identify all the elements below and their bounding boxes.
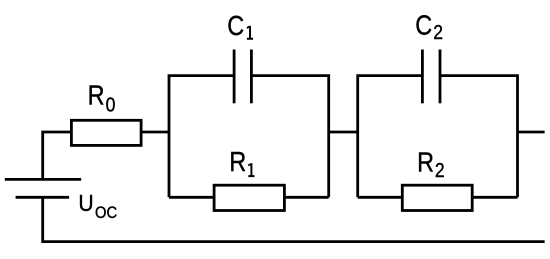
wire battery bottom + bottom rail <box>43 197 545 241</box>
capacitor C1 <box>233 50 236 104</box>
label R0 <box>88 81 116 116</box>
resistor R1 <box>214 185 284 210</box>
svg-text:2: 2 <box>433 21 443 43</box>
wire block2 left vertical + top branch left <box>358 76 423 198</box>
svg-text:R: R <box>229 147 246 177</box>
resistor R0 <box>71 120 141 145</box>
label C2 <box>415 11 443 43</box>
wire top branch right + block2 right vertical <box>440 76 518 198</box>
svg-text:C: C <box>227 11 244 41</box>
svg-text:R: R <box>88 81 105 111</box>
wire bottom branch to R2 <box>358 196 403 199</box>
svg-text:U: U <box>78 190 93 216</box>
wire node B between blocks <box>329 131 358 134</box>
label C1 <box>227 11 253 41</box>
svg-text:OC: OC <box>95 204 117 222</box>
label R1 <box>229 147 254 177</box>
wire top branch right + block1 right vertical <box>251 76 328 198</box>
wire R0 to node A <box>141 131 169 134</box>
svg-text:2: 2 <box>435 159 445 181</box>
battery U_OC top plate <box>5 178 81 181</box>
resistor R2 <box>402 185 472 210</box>
wire block1 left vertical + top branch left <box>169 76 234 198</box>
battery U_OC bottom plate <box>16 196 70 199</box>
label U_OC <box>78 190 117 222</box>
svg-text:C: C <box>415 11 432 41</box>
svg-text:0: 0 <box>106 94 116 116</box>
label R2 <box>417 148 445 182</box>
wire battery top to R0 input <box>43 132 72 179</box>
wire R1 to block1 right <box>284 196 328 199</box>
wire R2 to block2 right <box>472 196 517 199</box>
svg-text:R: R <box>417 148 434 178</box>
wire bottom branch to R1 <box>169 196 214 199</box>
wire output terminal top <box>518 131 545 134</box>
capacitor C2 <box>421 50 424 104</box>
